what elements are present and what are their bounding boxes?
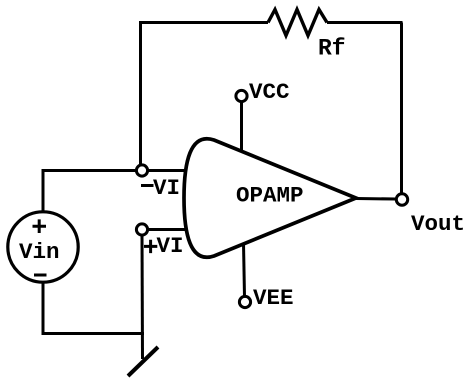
wire: bottom horizontal bbox=[42, 332, 145, 335]
svg-text:Vout: Vout bbox=[411, 211, 465, 237]
svg-text:VCC: VCC bbox=[249, 79, 290, 105]
svg-text:VI: VI bbox=[157, 233, 184, 259]
resistor Rf bbox=[268, 10, 327, 36]
wire: feedback loop left vertical bbox=[139, 23, 142, 166]
wire: non-inverting node down to ground bbox=[141, 235, 145, 359]
terminal VCC bbox=[236, 90, 247, 101]
wire: VCC lead bbox=[240, 102, 243, 153]
ground bbox=[128, 347, 158, 376]
wire: top horizontal right of resistor bbox=[327, 21, 403, 24]
source Vin bbox=[8, 212, 78, 282]
label -VI hyphen bbox=[141, 184, 154, 187]
node +VI terminal bbox=[136, 224, 147, 235]
wire: Vin top lead bbox=[42, 169, 45, 212]
svg-text:VEE: VEE bbox=[253, 285, 294, 311]
wire: op-amp output to Vout bbox=[356, 197, 396, 201]
wire: inverting input from node to op-amp bbox=[148, 169, 188, 172]
svg-text:VI: VI bbox=[153, 175, 180, 201]
label + polarity bbox=[33, 219, 47, 233]
wire: feedback loop right vertical bbox=[400, 23, 403, 194]
op-amp U1 bbox=[184, 139, 356, 258]
svg-text:OPAMP: OPAMP bbox=[236, 183, 304, 209]
label - polarity bbox=[34, 274, 47, 277]
svg-text:Vin: Vin bbox=[19, 239, 60, 265]
terminal VEE bbox=[239, 296, 250, 307]
label +VI plus bbox=[144, 240, 157, 253]
wire: non-inverting input to op-amp bbox=[148, 228, 188, 231]
wire: VEE lead bbox=[244, 243, 245, 297]
wire: top horizontal left of resistor bbox=[139, 21, 268, 24]
wire: Vin bottom lead bbox=[42, 283, 45, 336]
node -VI terminal bbox=[136, 165, 147, 176]
terminal Vout bbox=[396, 194, 407, 205]
svg-text:Rf: Rf bbox=[318, 36, 346, 62]
wire: from Vin top to inverting node bbox=[42, 169, 137, 172]
